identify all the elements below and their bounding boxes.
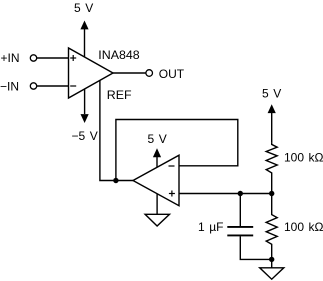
node divider bottom junction bbox=[269, 257, 274, 262]
wire U2 positive supply bbox=[156, 157, 158, 167]
wire U1 output bbox=[113, 72, 146, 74]
resistor R1 100k bbox=[266, 142, 277, 193]
node -IN terminal bbox=[30, 83, 36, 89]
svg-text:OUT: OUT bbox=[159, 67, 185, 81]
power 5V arrow U2 bbox=[153, 148, 161, 157]
svg-text:REF: REF bbox=[107, 88, 132, 102]
pin - of U2 bbox=[169, 165, 175, 167]
pin + of U1 bbox=[70, 55, 76, 61]
svg-text:100 kΩ: 100 kΩ bbox=[284, 220, 323, 234]
wire -IN to U1 bbox=[37, 85, 69, 87]
svg-text:−IN: −IN bbox=[0, 80, 19, 94]
ground U2 bbox=[145, 214, 169, 226]
power 5V arrow divider bbox=[268, 104, 276, 113]
op-amp U2 buffer bbox=[133, 155, 179, 206]
svg-text:1 µF: 1 µF bbox=[198, 220, 223, 234]
wire +IN to U1 bbox=[37, 57, 69, 59]
wire to ground divider bbox=[271, 259, 273, 267]
svg-text:5 V: 5 V bbox=[74, 1, 93, 15]
op-amp U1 INA848 bbox=[69, 48, 114, 98]
svg-text:5 V: 5 V bbox=[148, 132, 167, 146]
wire U2 to ground bbox=[156, 194, 158, 215]
svg-text:INA848: INA848 bbox=[98, 48, 139, 62]
wire U1 positive supply bbox=[84, 29, 86, 58]
pin - of U1 bbox=[70, 85, 76, 87]
node capacitor top junction bbox=[238, 191, 243, 196]
ground divider bbox=[260, 268, 284, 279]
power -5V arrow U1 bbox=[81, 114, 89, 123]
node divider mid junction bbox=[269, 191, 274, 196]
svg-text:5 V: 5 V bbox=[262, 86, 281, 100]
wire U1 negative supply bbox=[84, 89, 86, 114]
node +IN terminal bbox=[30, 55, 36, 61]
wire divider supply bbox=[271, 113, 273, 143]
pin + of U2 bbox=[169, 191, 175, 197]
wire U2 feedback loop bbox=[116, 120, 238, 181]
wire REF to buffer output bbox=[100, 81, 133, 181]
capacitor C1 top lead bbox=[239, 194, 241, 227]
node feedback junction bbox=[113, 178, 118, 183]
svg-text:+IN: +IN bbox=[1, 51, 20, 65]
capacitor C1 plates bbox=[227, 227, 253, 236]
capacitor C1 bottom lead bbox=[240, 236, 271, 259]
wire U2 noninverting input bbox=[179, 193, 272, 195]
svg-text:100 kΩ: 100 kΩ bbox=[284, 150, 323, 164]
node OUT terminal bbox=[146, 70, 153, 77]
power +5V arrow U1 bbox=[80, 21, 88, 30]
svg-text:−5 V: −5 V bbox=[72, 129, 98, 143]
resistor R2 100k bbox=[266, 194, 277, 260]
